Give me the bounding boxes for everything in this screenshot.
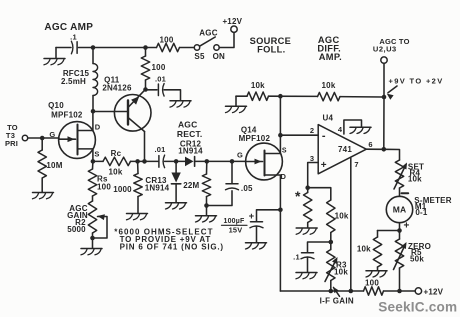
wire <box>165 160 186 162</box>
wire <box>384 149 400 160</box>
svg-text:G: G <box>237 151 243 160</box>
svg-text:2.5mH: 2.5mH <box>61 77 86 86</box>
ground (.1 cap) <box>296 273 317 279</box>
svg-text:1N914: 1N914 <box>178 147 203 156</box>
svg-text:AGC: AGC <box>199 29 217 38</box>
ground (10k divider) <box>226 96 247 112</box>
terminal AGC TO U2,U3 <box>373 37 410 63</box>
svg-text:.1: .1 <box>293 253 300 262</box>
ground (1000) <box>127 214 148 220</box>
rheostat R5 50k (ZERO) <box>394 231 432 292</box>
svg-text:S5: S5 <box>194 52 205 61</box>
svg-text:100: 100 <box>365 279 379 288</box>
diode CR12 1N914 <box>178 139 203 166</box>
svg-text:.1: .1 <box>70 33 77 42</box>
resistor 10M (gate) <box>38 138 63 192</box>
diode CR13 1N914 <box>145 161 181 202</box>
wire <box>236 95 247 97</box>
wire <box>219 32 234 47</box>
wire <box>28 137 59 139</box>
wire <box>93 160 103 162</box>
label S-METER M1 0-1 <box>414 196 451 217</box>
wire <box>308 188 331 200</box>
svg-text:AMP.: AMP. <box>319 52 342 62</box>
svg-text:Rc: Rc <box>111 149 122 158</box>
wire (output pin 6) <box>366 148 384 150</box>
node (100uF tap) <box>278 208 283 213</box>
wire <box>378 230 400 232</box>
resistor 10k (divider left) <box>247 81 269 100</box>
node (pin2 branch) <box>278 133 283 138</box>
svg-text:PIN 6 OF 741 (NO SIG.): PIN 6 OF 741 (NO SIG.) <box>120 243 224 252</box>
wire <box>79 47 157 49</box>
ground (100uF) <box>246 243 267 249</box>
svg-text:5000: 5000 <box>67 225 86 234</box>
resistor Rs 100 <box>88 161 111 196</box>
svg-text:10k: 10k <box>357 245 371 254</box>
node (10k/R3/.1 junction) <box>329 240 334 245</box>
node (Q11 emitter junction) <box>143 87 148 92</box>
svg-text:U2,U3: U2,U3 <box>373 45 397 54</box>
wire (pin 7) <box>350 158 352 291</box>
meter M1 (MA) <box>386 196 412 222</box>
svg-text:FOLL.: FOLL. <box>257 45 285 55</box>
svg-text:50k: 50k <box>410 254 424 263</box>
svg-text:PRI: PRI <box>5 139 18 148</box>
svg-text:+: + <box>249 211 255 222</box>
svg-text:.01: .01 <box>154 145 165 154</box>
svg-text:10k: 10k <box>335 211 349 220</box>
node (R2 bottom) <box>90 236 95 241</box>
resistor * (select 6000 ohms) <box>295 188 312 228</box>
wire (pin 3) <box>308 163 319 188</box>
label I-F GAIN <box>320 287 354 306</box>
label +9V TO +2V <box>387 77 444 100</box>
wire <box>207 191 233 206</box>
ground (meter 10k) <box>366 271 387 277</box>
terminal +12V (top) <box>222 17 242 32</box>
potentiometer R2 5000 (AGC GAIN) <box>67 196 107 238</box>
node (R5 bottom) <box>397 289 402 294</box>
svg-text:+: + <box>321 160 327 171</box>
svg-text:100µF: 100µF <box>224 218 246 225</box>
label meter plus <box>403 221 409 232</box>
svg-text:100: 100 <box>97 182 111 191</box>
node (pin 3 junction) <box>305 185 310 190</box>
svg-text:MPF102: MPF102 <box>239 134 271 143</box>
resistor 1000 <box>113 161 142 212</box>
wire <box>164 90 181 100</box>
resistor 100 (AGC on/off line) <box>157 35 180 51</box>
svg-text:+12V: +12V <box>222 17 242 26</box>
svg-text:4: 4 <box>338 125 343 134</box>
ground (* resistor) <box>296 228 317 234</box>
svg-text:741: 741 <box>338 145 352 154</box>
label TO T3 PRI <box>5 123 18 148</box>
svg-text:22M: 22M <box>183 181 199 190</box>
svg-text:10k: 10k <box>251 81 265 90</box>
svg-text:100: 100 <box>160 35 174 44</box>
rheostat R4 10k (SET) <box>394 160 424 196</box>
capacitor .05 <box>226 161 254 192</box>
resistor 10k (feedback) <box>318 81 341 101</box>
node (22M bottom) <box>204 203 209 208</box>
svg-text:Q10: Q10 <box>48 101 64 110</box>
svg-text:7: 7 <box>354 160 358 169</box>
svg-text:RECT.: RECT. <box>177 129 203 139</box>
ground (10M) <box>33 193 54 199</box>
svg-text:.05: .05 <box>241 184 253 193</box>
capacitor .1 (pin3 bypass) <box>293 242 331 272</box>
svg-text:G: G <box>49 130 55 139</box>
wire <box>195 160 246 162</box>
node (Q10 drain / Q11 base) <box>91 109 96 114</box>
svg-text:100: 100 <box>152 63 166 72</box>
svg-text:2: 2 <box>310 126 314 135</box>
power flag (pin 4) <box>344 120 371 134</box>
svg-text:10k: 10k <box>408 175 422 184</box>
inductor RFC15 2.5mH <box>61 48 98 112</box>
svg-text:10k: 10k <box>109 167 123 176</box>
node (pin 6 junction) <box>382 147 387 152</box>
svg-text:U4: U4 <box>322 114 333 123</box>
node (22M junction) <box>205 159 210 164</box>
label AGC DIFF. AMP. <box>317 35 342 62</box>
svg-text:I-F GAIN: I-F GAIN <box>320 296 354 305</box>
resistor 22M <box>183 161 210 205</box>
svg-text:+: + <box>403 221 409 232</box>
svg-text:1000: 1000 <box>113 185 132 194</box>
svg-text:D: D <box>95 123 101 132</box>
terminal +12V (bottom) <box>415 288 443 297</box>
svg-text:15V: 15V <box>229 226 243 235</box>
resistor 100 (Q11 emitter) <box>141 48 166 90</box>
capacitor .1 (input) <box>70 33 77 54</box>
capacitor .01 (emitter bypass) <box>146 74 167 96</box>
node (cap/RFC15 junction) <box>91 45 96 50</box>
resistor 100 (+12V feed) <box>364 279 384 296</box>
node (R3 bottom) <box>329 289 334 294</box>
op-amp U4 741 <box>310 114 373 174</box>
ground (emitter bypass) <box>170 101 191 107</box>
wire <box>180 47 195 49</box>
svg-text:AGC AMP: AGC AMP <box>44 22 93 33</box>
svg-text:AGC: AGC <box>178 119 198 129</box>
node (Q10 source junction) <box>91 159 96 164</box>
ground (CR13) <box>166 203 187 209</box>
svg-text:MA: MA <box>393 205 407 215</box>
wire (Q14 drain down) <box>279 175 281 291</box>
resistor 10k (pin3 to wiper) <box>327 200 349 242</box>
note *6000 ohms select <box>114 227 224 251</box>
label AGC RECT. <box>177 119 203 139</box>
wire (Q14 source up) <box>279 96 281 154</box>
wire <box>131 160 159 162</box>
label meter minus <box>402 192 409 194</box>
ground (R2) <box>81 238 102 255</box>
node (CR13 junction) <box>174 159 179 164</box>
node (meter/R5/10k junction) <box>397 228 402 233</box>
svg-text:10k: 10k <box>322 81 336 90</box>
svg-text:MPF102: MPF102 <box>51 110 83 119</box>
svg-text:SeekIC.com: SeekIC.com <box>378 300 457 315</box>
label SOURCE FOLL. <box>250 36 292 55</box>
ground (input coupling cap) <box>44 48 65 65</box>
svg-text:6: 6 <box>368 140 372 149</box>
capacitor .01 (AGC rect coupling) <box>154 145 165 168</box>
svg-text:+9V TO +2V: +9V TO +2V <box>389 77 444 86</box>
svg-text:0-1: 0-1 <box>415 208 428 217</box>
watermark SeekIC.com <box>378 300 457 315</box>
capacitor 100uF 15V <box>222 210 281 242</box>
JFET Q14 MPF102 <box>237 126 287 181</box>
node (divider center) <box>278 94 283 99</box>
node (+9V junction) <box>382 95 387 100</box>
wire <box>56 47 71 49</box>
resistor 10k (meter shunt) <box>357 231 382 271</box>
svg-text:10k: 10k <box>334 267 348 276</box>
node (.05 junction) <box>230 159 235 164</box>
svg-text:1N914: 1N914 <box>145 183 170 192</box>
svg-text:S: S <box>94 150 99 159</box>
svg-text:+12V: +12V <box>424 288 444 297</box>
wire <box>340 96 384 98</box>
transistor Q11 2N4126 <box>93 76 151 162</box>
potentiometer R3 10k (I-F GAIN) <box>325 242 348 291</box>
wire (bottom rail) <box>280 290 363 292</box>
wire (+9V riser) <box>383 97 385 149</box>
wire <box>384 290 416 292</box>
switch S5 <box>194 29 225 62</box>
svg-text:S: S <box>282 148 287 155</box>
wire (pin 2) <box>280 134 318 136</box>
svg-text:10M: 10M <box>46 161 62 170</box>
node (Q11 collector junction) <box>142 159 147 164</box>
node (Rc/1000 junction) <box>135 159 140 164</box>
label AGC AMP <box>44 22 93 33</box>
wire <box>383 63 385 97</box>
resistor Rc 10k <box>103 149 131 176</box>
node (pin 7 bottom) <box>349 289 354 294</box>
svg-text:.01: .01 <box>155 74 166 83</box>
svg-text:-: - <box>322 130 326 142</box>
node (gate/10M junction) <box>40 136 45 141</box>
wire <box>399 223 401 231</box>
svg-text:D: D <box>280 172 286 181</box>
ground (22M) <box>196 206 217 223</box>
JFET Q10 MPF102 <box>48 101 101 162</box>
svg-text:2N4126: 2N4126 <box>102 83 132 92</box>
node (100 ohm junction) <box>143 45 148 50</box>
wire <box>269 95 318 97</box>
svg-text:*: * <box>295 188 301 204</box>
svg-text:ON: ON <box>213 52 225 61</box>
terminal (input from T3 pri) <box>22 135 27 140</box>
